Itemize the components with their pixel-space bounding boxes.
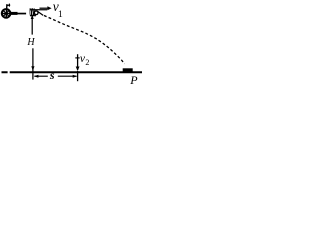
svg-text:2: 2 bbox=[85, 58, 89, 67]
svg-text:H: H bbox=[26, 37, 35, 48]
svg-text:1: 1 bbox=[58, 10, 63, 20]
svg-text:P: P bbox=[129, 73, 138, 87]
svg-text:s: s bbox=[49, 68, 55, 82]
